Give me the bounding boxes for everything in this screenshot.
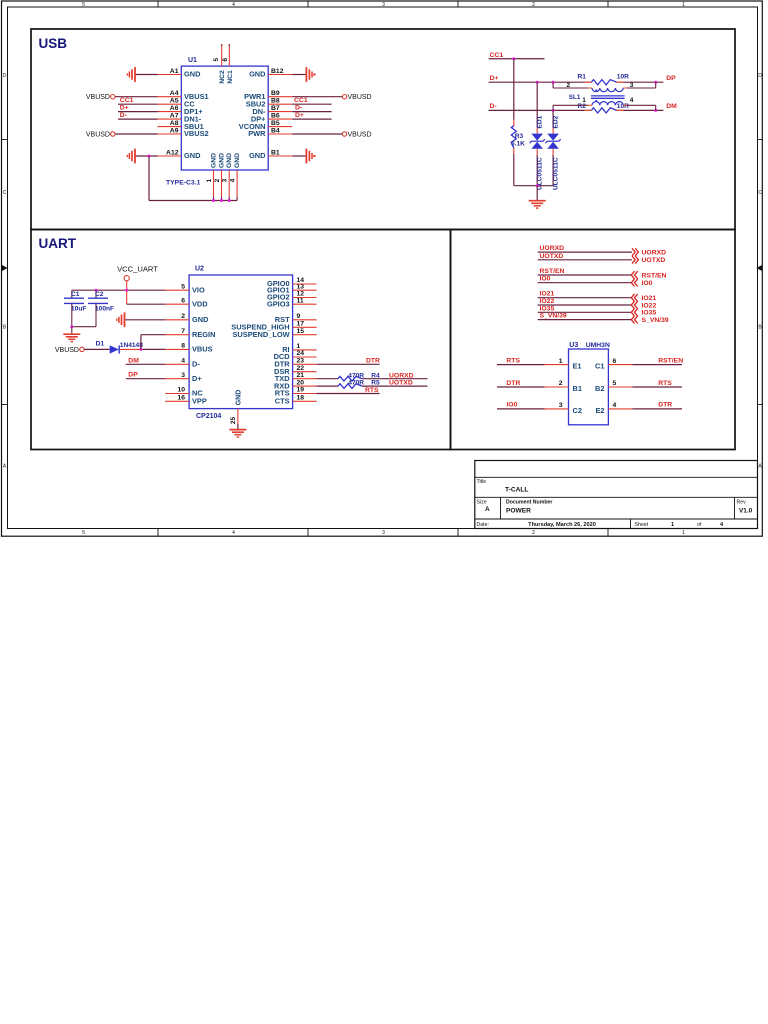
svg-text:3: 3 [559,402,563,409]
ground symbol below C1 [63,334,80,341]
net label CC1 (B8) [294,97,308,104]
svg-text:C1: C1 [595,362,604,371]
svg-text:D+: D+ [490,75,499,82]
wire VIO rail [72,289,165,291]
svg-text:1: 1 [582,97,586,104]
svg-text:25: 25 [230,417,237,425]
svg-text:of: of [697,522,702,528]
value CP2104 [196,413,221,420]
svg-text:7: 7 [181,328,185,335]
svg-text:SUSPEND_LOW: SUSPEND_LOW [233,330,290,339]
svg-text:GND: GND [184,151,201,160]
junction dots on D+ line [536,81,658,84]
svg-text:470R: 470R [348,380,364,387]
svg-text:24: 24 [297,350,305,357]
U3 pin names [573,362,605,415]
wire D+ to A6 [118,111,158,113]
svg-text:3: 3 [382,530,385,536]
SL1 pin number 1 [582,97,586,104]
wire B12 to ground [292,74,305,76]
svg-text:3: 3 [630,82,634,89]
svg-text:IO0: IO0 [540,276,551,283]
refdes U1 [188,57,197,64]
svg-text:IO0: IO0 [506,402,517,409]
SL1 polarity dots [595,89,597,102]
wire VBUSD to A4 [115,96,158,98]
svg-text:ED1: ED1 [537,115,544,128]
border zone ticks right [758,140,763,405]
svg-text:D-: D- [295,104,302,111]
svg-text:1: 1 [297,343,301,350]
title block column lines [501,497,735,528]
svg-text:ED2: ED2 [553,115,560,128]
svg-text:3: 3 [382,2,385,8]
wire R3 to ground rail [513,148,515,186]
dot right of B12 ground [314,74,316,76]
wire U3 pin 6 to RST/EN [632,364,682,366]
svg-text:ULC0511C: ULC0511C [552,157,559,190]
off-page connector IO21 [631,294,637,302]
svg-text:TYPE-C3.1: TYPE-C3.1 [166,180,201,187]
border zone letters left [3,73,7,470]
junction dot VCC/VIO [125,289,128,292]
wire IO0 [538,282,632,284]
wire shield pins to net [214,197,238,201]
svg-text:E2: E2 [595,406,604,415]
net label RST/EN (right of off-page) [642,272,667,279]
net label RST/EN (left of off-page) [540,268,565,275]
wire RST/EN [538,274,632,276]
net label IO0 (U3 left) [506,402,517,409]
net label CC1 (A5) [120,97,134,104]
wire ED1 to ground rail [536,149,538,186]
svg-text:4: 4 [630,97,634,104]
net label DM [666,103,677,110]
svg-text:VBUSD: VBUSD [86,94,110,101]
net label S_VN/39 (right of off-page) [642,317,669,324]
svg-text:VBUSD: VBUSD [55,347,79,354]
sheet border inner frame [8,7,758,529]
label R3 [515,133,524,140]
off-page connector IO0 [631,279,637,287]
net label IO35 (left of off-page) [540,305,555,312]
svg-text:CC1: CC1 [294,97,308,104]
IC U2 body [189,275,293,409]
label 10R (R2) [617,103,629,110]
sheet border outer frame [2,1,763,536]
svg-text:UORXD: UORXD [540,245,565,252]
USB section box [31,29,735,230]
wire VCC_UART down [126,281,128,290]
net label DTR (U2 right) [366,357,380,364]
svg-text:DTR: DTR [658,402,672,409]
svg-text:B1: B1 [573,384,582,393]
U3 pin numbers [559,358,617,409]
power port VBUSD at U1 pin B9 [342,94,371,101]
svg-text:1N4148: 1N4148 [120,342,143,349]
net label IO22 (right of off-page) [642,302,657,309]
net label UOTXD (right of off-page) [642,257,666,264]
ground at U2 pin GND(2) [117,312,125,327]
svg-text:21: 21 [297,372,305,379]
wire B7 D- [292,111,331,113]
svg-text:IO21: IO21 [540,291,555,298]
ground at U1 pin A12 [127,149,135,164]
net label D- (right section) [490,103,497,110]
net label RTS (U3 left) [506,357,520,364]
wire shield net vertical [148,156,150,201]
wire cap ground rail [72,326,96,328]
border zone letters right [758,73,762,470]
wire D+ down to ED1 [536,82,538,133]
U1 pin names [184,70,266,161]
svg-text:T-CALL: T-CALL [505,487,528,494]
title block sheet number 1 [671,522,674,528]
net label DTR (U3 left) [506,380,520,387]
svg-text:17: 17 [297,321,305,328]
svg-text:VDD: VDD [192,299,208,308]
title block document number POWER [506,508,531,515]
svg-text:GND: GND [226,153,233,168]
svg-text:100nF: 100nF [95,305,114,312]
label ED1 [537,115,544,128]
svg-text:Date:: Date: [477,522,489,528]
net label IO0 (right of off-page) [642,280,653,287]
U1 pin NC1 (top) [222,44,234,84]
off-page connector S_VN/39 [631,316,637,324]
label 10R (R1) [617,74,629,81]
wire B1 to ground [292,155,305,157]
svg-text:RST/EN: RST/EN [658,357,683,364]
svg-text:D+: D+ [295,112,304,119]
ground symbol below U2 [229,430,246,437]
svg-text:RST/EN: RST/EN [540,268,565,275]
U2 side pins [165,284,317,401]
alignment arrow right border [757,265,763,271]
label 100nF [95,305,114,312]
svg-text:C: C [758,190,762,196]
off-page connector IO22 [631,301,637,309]
U1 pin NC2 (top) [213,44,226,84]
svg-text:4: 4 [230,178,237,182]
wire R5 to UOTXD [362,385,428,387]
wire D- down to ED2 [552,110,554,133]
power port VCC_UART [117,264,158,281]
wire RTS to U3 pin 1 [497,364,545,366]
wire U2 TXD to R4 [317,378,338,380]
net label RTS (U3 right) [658,380,672,387]
wire CC1 down to R3 [513,59,515,126]
junction dots on D- line [552,109,658,112]
svg-text:10: 10 [177,387,185,394]
svg-text:D: D [3,73,7,79]
net label DM (UART) [128,357,139,364]
label R1 [578,74,587,81]
wire IO35 [538,311,632,313]
wire B6 D+ [292,118,331,120]
wire A1 to ground [136,74,158,76]
wire DM to U2 D- [126,363,165,365]
svg-text:6: 6 [222,58,229,62]
svg-text:UMH3N: UMH3N [586,342,610,349]
svg-text:V1.0: V1.0 [739,508,753,515]
wire D- main [489,109,664,111]
label 470R (R4) [348,372,364,379]
svg-text:U3: U3 [569,342,578,349]
svg-text:DP: DP [666,75,676,82]
choke SL1 bottom loop wires [553,105,656,110]
junction dot A12 shield net [148,155,151,158]
svg-text:5: 5 [82,2,85,8]
svg-text:C1: C1 [71,291,80,298]
svg-text:RTS: RTS [506,357,520,364]
svg-text:D-: D- [490,103,497,110]
resistor R4 [338,376,362,381]
svg-text:A: A [485,506,490,513]
wire B8 CC1 [292,103,331,105]
U1 side pins [158,75,293,157]
border zone numbers top [82,2,685,8]
svg-text:VCC_UART: VCC_UART [117,264,158,273]
svg-text:10uF: 10uF [71,305,86,312]
label 10uF [71,305,86,312]
net label UORXD (right of off-page) [642,249,667,256]
title block sheet total 4 [720,522,724,528]
wire U3 pin 5 to RTS [632,386,682,388]
svg-text:REGIN: REGIN [192,330,215,339]
title block Document Number label [506,500,552,506]
svg-text:NC2: NC2 [219,70,226,84]
svg-text:UOTXD: UOTXD [389,380,413,387]
U2 pin GND (bottom) and pin number 25 [230,390,243,424]
label 5.1K [511,141,525,148]
border zone ticks top [158,1,608,7]
resistor R2 [591,108,616,113]
svg-text:2: 2 [559,380,563,387]
svg-text:CC1: CC1 [120,97,134,104]
net label UOTXD (left of off-page) [540,253,564,260]
svg-text:IO35: IO35 [642,310,657,317]
svg-text:D-: D- [120,112,127,119]
net label CC1 (right section) [490,52,504,59]
label R2 [578,103,587,110]
svg-text:1: 1 [206,178,213,182]
svg-text:Document Number: Document Number [506,500,552,506]
wire VDD branch [127,290,165,304]
wire U2 RXD to R5 [317,385,338,387]
svg-text:19: 19 [297,387,305,394]
svg-text:S_VN/39: S_VN/39 [642,317,669,324]
svg-text:GND: GND [249,151,266,160]
svg-text:4: 4 [232,2,235,8]
net label D- (A7) [120,112,127,119]
ground at U1 pin A1 [127,67,135,82]
svg-text:GND: GND [192,315,209,324]
refdes U3 [569,342,578,349]
ground at U1 pin B12 [306,67,314,82]
svg-text:UORXD: UORXD [389,372,414,379]
TVS diode ED2 [546,134,561,149]
net label IO35 (right of off-page) [642,310,657,317]
svg-text:IO0: IO0 [642,280,653,287]
svg-text:UOTXD: UOTXD [540,253,564,260]
svg-text:4: 4 [181,358,185,365]
wire IO22 [538,304,632,306]
dot right of B1 ground [314,155,316,157]
SL1 pin number 4 [630,97,634,104]
wire IO0 to U3 pin 3 [497,408,545,410]
choke SL1 winding 2-3 [592,88,623,92]
svg-text:9: 9 [297,313,301,320]
svg-text:UOTXD: UOTXD [642,257,666,264]
svg-text:IO35: IO35 [540,305,555,312]
wire B4 to VBUSD [292,133,342,135]
wire U2 GND down [237,424,239,430]
border zone ticks left [2,140,8,405]
label C1 [71,291,80,298]
net label IO21 (right of off-page) [642,295,657,302]
svg-text:3: 3 [181,372,185,379]
svg-text:Title: Title [477,479,487,485]
svg-text:2: 2 [532,2,535,8]
svg-text:A: A [3,464,7,470]
svg-text:B: B [3,325,7,331]
svg-text:E1: E1 [573,362,582,371]
wire REGIN branch [141,335,165,350]
svg-text:3: 3 [222,178,229,182]
svg-text:R1: R1 [578,74,587,81]
svg-text:SL1: SL1 [569,94,581,101]
wire rail to ground (caps) [71,327,73,335]
svg-text:18: 18 [297,395,305,402]
capacitor C1 [64,290,84,327]
wire S_VN/39 [538,319,632,321]
net label DTR (U3 right) [658,402,672,409]
svg-text:USB: USB [39,36,68,51]
wire UOTXD [538,259,632,261]
net label D+ (A6) [120,104,129,111]
svg-text:R3: R3 [515,133,524,140]
junction dot D1/REGIN branch [139,348,142,351]
title block of label [697,522,702,528]
SL1 pin number 2 [567,82,571,89]
svg-text:DM: DM [128,357,139,364]
title block Sheet label [635,522,649,528]
svg-text:6: 6 [613,358,617,365]
wire R4 to UORXD [362,378,428,380]
svg-text:VBUSD: VBUSD [348,131,372,138]
U2 pin numbers [177,277,304,401]
wire U2 GND pin to ground [125,319,165,321]
svg-text:GND: GND [184,70,201,79]
wire U3 pin 4 to DTR [632,408,682,410]
svg-text:5: 5 [213,58,220,62]
junction dot C2 top [95,289,98,292]
title block date value [528,522,596,528]
svg-text:23: 23 [297,358,305,365]
svg-text:U1: U1 [188,57,197,64]
label D1 [96,341,105,348]
junction dot CC1/R3 [512,57,515,60]
choke SL1 top loop wires [553,82,656,88]
net label UOTXD (UART left) [389,380,413,387]
svg-text:Size: Size [477,500,487,506]
svg-text:10R: 10R [617,74,629,81]
junction dot ground rail [536,184,539,187]
net label DP [666,75,676,82]
title block row lines [475,477,758,519]
resistor R1 leads [584,81,623,83]
svg-text:16: 16 [177,395,185,402]
svg-text:5: 5 [181,283,185,290]
svg-text:2: 2 [532,530,535,536]
svg-text:20: 20 [297,379,305,386]
label R5 [371,380,380,387]
power port VBUSD (UART) [55,347,84,354]
svg-text:4: 4 [232,530,235,536]
net label DP (UART) [128,372,138,379]
svg-text:VBUS: VBUS [192,345,213,354]
off-page connector RST/EN [631,271,637,279]
choke SL1 winding 1-4 [592,102,623,106]
label 1N4148 [120,342,143,349]
border zone ticks bottom [158,528,608,536]
wire VBUSD to A9 [115,133,158,135]
svg-text:4: 4 [613,402,617,409]
wire A12 to ground [136,155,158,157]
diode D1 1N4148 [110,345,120,353]
svg-text:GND: GND [234,153,241,168]
wire IO21 [538,297,632,299]
net label D- (B7) [295,104,302,111]
net label UORXD (UART left) [389,372,414,379]
title block Rev label [737,500,747,506]
ground symbol (USB right) [529,201,546,208]
title block Size label [477,500,487,506]
U1 shield pins 1-4 (bottom) [206,153,241,197]
wire rail to ground symbol [536,186,538,201]
svg-text:2: 2 [214,178,221,182]
ground rail wire (USB right) [514,185,553,187]
svg-text:GND: GND [249,70,266,79]
svg-text:DM: DM [666,103,677,110]
svg-text:B2: B2 [595,384,604,393]
svg-text:DTR: DTR [366,357,380,364]
svg-text:U2: U2 [195,266,204,273]
label ULC0511C (ED1) [537,157,544,190]
svg-text:5.1K: 5.1K [511,141,525,148]
svg-text:Thursday, March 26, 2020: Thursday, March 26, 2020 [528,522,596,528]
svg-text:C: C [3,190,7,196]
wire D- to A7 [118,118,158,120]
svg-text:C2: C2 [573,406,582,415]
title block Date label [477,522,489,528]
TVS diode ED1 [530,134,545,149]
net label RTS (U2 right) [365,387,379,394]
wire CC1 horizontal [489,58,545,60]
net label S_VN/39 (left of off-page) [540,313,567,320]
net label UORXD (left of off-page) [540,245,565,252]
svg-text:2: 2 [567,82,571,89]
title block outline [475,461,758,529]
svg-text:VBUSD: VBUSD [348,94,372,101]
title block title value T-CALL [505,487,528,494]
svg-text:UORXD: UORXD [642,249,667,256]
svg-text:PWR: PWR [248,129,266,138]
svg-text:1: 1 [559,358,563,365]
svg-text:IO22: IO22 [540,298,555,305]
svg-text:POWER: POWER [506,508,531,515]
